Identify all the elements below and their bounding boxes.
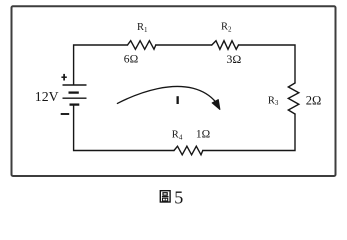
resistor R4 [174,146,203,155]
svg-text:R1: R1 [137,22,148,34]
svg-text:12V: 12V [35,89,59,104]
battery B1 [63,85,87,105]
svg-text:2Ω: 2Ω [306,93,322,107]
svg-text:5: 5 [174,188,183,208]
wire R2 to top-right corner down to R3 [239,45,296,83]
resistor R1 [128,41,156,50]
battery positive terminal + [61,74,66,81]
svg-text:6Ω: 6Ω [124,52,139,65]
svg-text:R3: R3 [268,95,279,107]
svg-text:1Ω: 1Ω [196,129,210,141]
resistor R2 [212,41,239,50]
battery negative terminal - [61,113,69,115]
svg-text:R4: R4 [172,130,183,142]
label I (current) [177,96,179,104]
wire R4 to bottom-left corner up to battery [74,105,174,151]
resistor R3 [288,83,299,114]
wire top-left corner to R1 [74,45,128,85]
caption figure character 圖 [160,191,170,202]
wire R3 to bottom-right corner to R4 [203,114,295,151]
svg-text:3Ω: 3Ω [226,52,241,66]
wire R1 to R2 [156,44,212,46]
svg-text:R2: R2 [221,22,232,34]
current direction arrow [117,86,219,109]
